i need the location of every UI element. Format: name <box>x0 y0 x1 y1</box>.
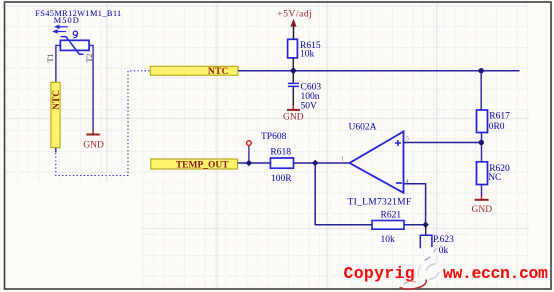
wire feedback node down to R621 <box>315 163 372 225</box>
net label TEMP_OUT <box>151 159 238 170</box>
wire T2 to ground <box>89 45 93 131</box>
svg-text:10k: 10k <box>300 50 315 60</box>
op-amp U602A <box>341 123 412 208</box>
wire R615 to C603 <box>292 58 294 83</box>
svg-text:5: 5 <box>406 136 409 142</box>
svg-text:TI_LM7321MF: TI_LM7321MF <box>348 197 412 207</box>
junction (feedback node) <box>312 160 318 166</box>
ground (thermistor) <box>83 131 104 151</box>
svg-text:U602A: U602A <box>349 123 377 133</box>
thermistor FS45MR12W1M1_B11 <box>52 25 89 55</box>
resistor R621 <box>372 211 404 246</box>
svg-text:Copyrig: Copyrig <box>344 264 415 283</box>
svg-text:GND: GND <box>83 140 104 150</box>
power +5V/adj <box>277 10 312 40</box>
svg-text:C603: C603 <box>301 83 322 93</box>
svg-text:M50D: M50D <box>54 16 80 25</box>
svg-text:P.623: P.623 <box>433 235 454 245</box>
resistor R615 <box>288 39 321 59</box>
wire op-amp -in to R621 node <box>404 184 426 225</box>
wire TEMP_OUT to R618 <box>238 162 271 164</box>
potentiometer P623 <box>420 235 454 256</box>
wire (dotted NTC connection) <box>56 71 150 176</box>
svg-text:NTC: NTC <box>208 67 229 77</box>
svg-text:100R: 100R <box>271 174 292 184</box>
svg-text:NTC: NTC <box>52 90 62 110</box>
junction (TP608) <box>246 160 252 166</box>
net label NTC <box>150 66 238 77</box>
svg-text:TEMP_OUT: TEMP_OUT <box>176 160 229 170</box>
svg-text:T1: T1 <box>46 54 55 63</box>
net label NTC (vertical port) <box>51 82 62 147</box>
svg-text:GND: GND <box>283 113 304 123</box>
junction (R621 / pin4 / P623) <box>422 222 428 228</box>
pin T1 <box>46 54 55 63</box>
svg-text:+5V/adj: +5V/adj <box>277 10 312 20</box>
svg-text:TP608: TP608 <box>261 132 287 142</box>
svg-text:R618: R618 <box>270 148 291 158</box>
watermark Copyright www.eccn.com <box>344 264 549 283</box>
wire main rail <box>238 70 520 72</box>
svg-text:0k: 0k <box>439 246 449 256</box>
junction (rail / R617) <box>479 68 484 73</box>
svg-text:1: 1 <box>341 157 344 163</box>
wire R621 to node <box>404 224 426 226</box>
wire T1 to NTC label <box>56 45 61 82</box>
capacitor C603 <box>288 83 321 112</box>
svg-text:R621: R621 <box>381 211 402 221</box>
wire node to P623 <box>425 225 427 236</box>
wire op-amp +in to R617 node <box>404 142 482 144</box>
wire R617 to R620 <box>481 133 483 162</box>
wire R620 to ground <box>481 185 483 197</box>
wire stub below NTC port <box>55 148 57 153</box>
svg-text:NC: NC <box>488 173 501 183</box>
resistor R618 <box>270 148 293 184</box>
svg-text:0R0: 0R0 <box>489 122 505 132</box>
ground (R620) <box>472 196 493 216</box>
label FS45MR12W1M1_B11 <box>35 9 121 18</box>
svg-text:ww.eccn.com: ww.eccn.com <box>443 264 548 283</box>
junction (rail / R615) <box>290 67 297 74</box>
pin T2 <box>85 54 94 63</box>
svg-text:10k: 10k <box>381 235 396 245</box>
wire C603 to ground <box>292 87 294 106</box>
svg-text:50V: 50V <box>301 102 318 112</box>
resistor R617 <box>477 110 511 133</box>
svg-text:GND: GND <box>472 205 493 215</box>
test point TP608 <box>247 132 287 163</box>
ground (C603) <box>283 105 304 123</box>
wire R618 to op-amp output <box>294 162 350 164</box>
label M50D <box>54 16 80 25</box>
watermark mascot scribble <box>400 248 441 289</box>
svg-text:100n: 100n <box>301 92 320 102</box>
junction (+in node) <box>479 140 484 145</box>
wire rail to R617 <box>480 71 482 110</box>
svg-text:R617: R617 <box>489 112 510 122</box>
resistor R620 <box>477 162 511 185</box>
